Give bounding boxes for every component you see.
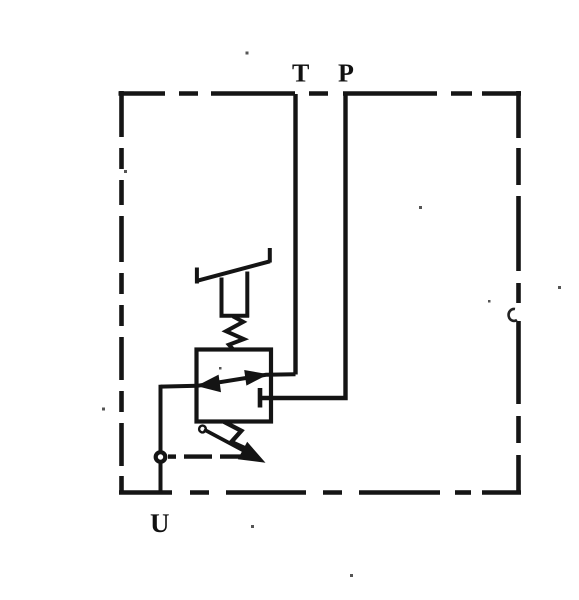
wire: port P line <box>261 94 346 398</box>
enclosure dashed border left <box>119 91 124 495</box>
lever arm <box>197 261 270 281</box>
piston / adjuster block <box>220 272 250 318</box>
enclosure dashed border bottom <box>119 490 521 495</box>
adjustment arrow start curl <box>199 426 206 433</box>
valve body V1 <box>197 350 272 422</box>
wire: port T line <box>293 94 297 375</box>
spring S2 (lower, under valve) <box>224 422 250 451</box>
scan squiggle on right border <box>509 309 517 321</box>
scan speck marks <box>102 52 561 578</box>
arrowhead right (flow arrow) <box>244 370 268 386</box>
spring S1 (upper, above valve) <box>226 316 244 349</box>
arrowhead left (flow arrow) <box>197 375 222 393</box>
svg-text:U: U <box>150 508 170 538</box>
lever end tick left <box>195 268 199 284</box>
enclosure dashed border top <box>119 91 522 96</box>
svg-text:T: T <box>292 59 309 88</box>
wire: U port drop <box>159 463 163 493</box>
wire: flow path line through valve <box>161 374 296 386</box>
node junction circle <box>156 452 166 462</box>
lever end tick right <box>268 248 272 263</box>
blocked-port bar (P termination inside valve) <box>258 388 263 408</box>
wire: dashed pilot sense line <box>168 454 246 458</box>
wire: pilot line left vertical to U <box>159 385 163 451</box>
svg-text:P: P <box>338 59 354 88</box>
adjustment arrowhead <box>238 442 266 463</box>
enclosure dashed border right <box>516 91 521 495</box>
adjustment arrow shaft <box>204 430 248 454</box>
